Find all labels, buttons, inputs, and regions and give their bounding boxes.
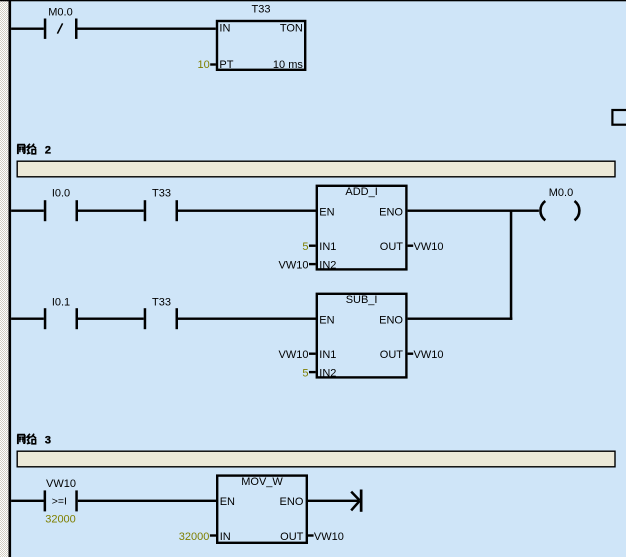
svg-text:EN: EN	[319, 206, 334, 218]
MOV_W box	[217, 476, 307, 543]
network 2 comment bar	[17, 161, 615, 177]
svg-text:T33: T33	[152, 187, 171, 199]
svg-text:>=I: >=I	[52, 496, 67, 508]
wire compare contact to MOV_W box	[78, 500, 217, 502]
svg-text:M0.0: M0.0	[48, 6, 72, 18]
svg-text:10: 10	[198, 59, 210, 71]
left gutter margin (dithered)	[0, 0, 9, 557]
svg-text:32000: 32000	[45, 513, 76, 525]
timer T33 TON box	[217, 4, 305, 72]
IN2 pin tick	[309, 263, 316, 265]
open branch arrow	[351, 490, 362, 512]
IN2 pin tick (SUB)	[309, 371, 316, 373]
svg-text:IN1: IN1	[319, 241, 336, 253]
vertical branch wire	[510, 210, 513, 320]
svg-text:I0.0: I0.0	[52, 187, 70, 199]
svg-text:EN: EN	[319, 314, 334, 326]
small cursor box at right edge	[612, 110, 626, 125]
PT pin tick	[210, 63, 216, 65]
svg-text:IN2: IN2	[319, 368, 336, 380]
OUT pin tick (SUB)	[408, 353, 414, 355]
wire ADD_I ENO to coil	[408, 210, 539, 212]
contact I0.1	[44, 297, 78, 330]
IN1 pin tick (SUB)	[309, 353, 316, 355]
svg-text:OUT: OUT	[280, 531, 304, 543]
svg-text:M0.0: M0.0	[549, 187, 573, 199]
svg-text:OUT: OUT	[380, 349, 404, 361]
IN pin tick (MOV)	[210, 534, 217, 536]
svg-text:5: 5	[302, 368, 308, 380]
wire rail to contact M0.0	[11, 28, 44, 30]
compare contact VW10 >=I 32000	[44, 478, 78, 526]
wire contact M0.0 to timer box	[78, 28, 216, 30]
svg-text:IN: IN	[220, 531, 231, 543]
ADD_I box	[317, 186, 407, 272]
svg-text:EN: EN	[220, 496, 235, 508]
svg-text:32000: 32000	[179, 531, 210, 543]
wire SUB_I ENO to branch	[408, 318, 513, 320]
svg-text:SUB_I: SUB_I	[346, 294, 378, 306]
svg-text:5: 5	[302, 241, 308, 253]
svg-text:ENO: ENO	[379, 314, 403, 326]
svg-text:PT: PT	[219, 59, 233, 71]
svg-text:TON: TON	[280, 22, 303, 34]
wire I0.0 to T33	[78, 210, 144, 212]
OUT pin tick	[408, 245, 414, 247]
svg-text:VW10: VW10	[279, 349, 309, 361]
network 2 title 网络 2	[17, 144, 36, 154]
svg-text:2: 2	[45, 144, 51, 156]
svg-text:IN1: IN1	[319, 349, 336, 361]
contact T33 (rung 2)	[144, 297, 178, 330]
rung 1: wire rail to I0.0	[11, 210, 44, 212]
svg-text:OUT: OUT	[380, 241, 404, 253]
contact I0.0	[44, 187, 78, 221]
wire T33 to SUB_I box	[178, 318, 317, 320]
wire MOV_W ENO to open branch arrow	[308, 500, 360, 502]
svg-text:MOV_W: MOV_W	[241, 476, 283, 488]
svg-text:I0.1: I0.1	[52, 297, 70, 309]
svg-text:T33: T33	[152, 297, 171, 309]
IN1 pin tick	[309, 245, 316, 247]
contact M0.0 (normally closed)	[44, 6, 78, 39]
svg-text:VW10: VW10	[414, 241, 444, 253]
coil M0.0	[540, 187, 579, 220]
network 3 comment bar	[17, 451, 615, 467]
top window border line	[0, 0, 626, 1]
OUT pin tick (MOV)	[308, 534, 314, 536]
wire I0.1 to T33	[78, 318, 144, 320]
network 3 title 网络 3	[17, 434, 36, 444]
left power rail	[9, 0, 12, 557]
contact T33	[144, 187, 178, 221]
svg-text:VW10: VW10	[279, 260, 309, 272]
svg-text:ENO: ENO	[280, 496, 304, 508]
svg-text:T33: T33	[252, 4, 271, 16]
SUB_I box	[317, 294, 407, 380]
rung 2: wire rail to I0.1	[11, 318, 44, 320]
svg-text:VW10: VW10	[314, 531, 344, 543]
svg-text:ADD_I: ADD_I	[345, 186, 377, 198]
svg-text:IN2: IN2	[319, 260, 336, 272]
svg-text:3: 3	[45, 434, 51, 446]
svg-text:IN: IN	[219, 22, 230, 34]
wire T33 to ADD_I box	[178, 210, 317, 212]
svg-text:VW10: VW10	[46, 478, 76, 490]
rung: wire rail to compare contact	[11, 500, 44, 502]
svg-text:VW10: VW10	[414, 349, 444, 361]
svg-text:10 ms: 10 ms	[273, 59, 303, 71]
svg-text:ENO: ENO	[379, 206, 403, 218]
